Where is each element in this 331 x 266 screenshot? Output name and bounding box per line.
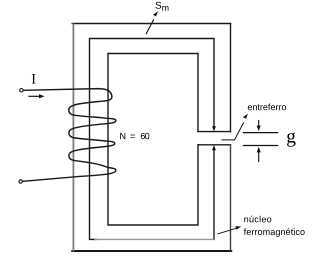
gap dimension lower line — [244, 145, 278, 147]
core outer boundary top edge — [72, 23, 230, 25]
label Sm — [155, 2, 168, 11]
label N = 60 — [120, 133, 149, 139]
nucleo leader arrow — [218, 228, 237, 234]
flux path middle line — [90, 39, 215, 240]
air gap upper face — [198, 131, 231, 133]
terminal lower — [19, 180, 22, 183]
coil winding N=60 around left limb — [22, 89, 116, 182]
terminal upper — [20, 89, 23, 92]
core outer boundary bottom edge — [72, 250, 231, 252]
flux arrow down into gap — [212, 126, 216, 131]
current arrow — [29, 95, 40, 97]
label I — [32, 74, 36, 83]
label ferromagnetico — [244, 228, 305, 236]
entreferro leader arrow — [222, 123, 244, 140]
dimension arrow down — [258, 121, 260, 126]
dimension arrow up — [258, 153, 260, 162]
label entreferro — [248, 104, 286, 111]
label g — [287, 132, 296, 146]
air gap lower face — [198, 144, 231, 146]
core inner boundary — [108, 54, 198, 226]
gap dimension upper line — [244, 132, 278, 134]
core outer boundary right edge above gap — [230, 24, 232, 132]
core outer boundary left edge (gray) — [72, 24, 74, 250]
label nucleo — [244, 216, 271, 223]
flux arrow up into gap — [212, 145, 216, 150]
core outer boundary right edge below gap (dark gray) — [230, 145, 232, 251]
flux path middle bottom edge (gray) — [95, 238, 213, 240]
Sm leader arrow — [146, 20, 153, 34]
flux path middle line right side below gap — [213, 150, 215, 240]
